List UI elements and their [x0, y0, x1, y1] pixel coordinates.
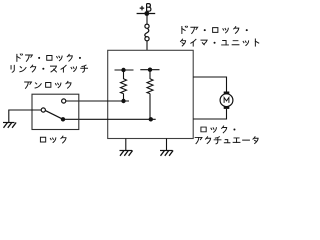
wire +B rail to fuse [146, 14, 148, 25]
label door lock timer unit (2 lines katakana) [181, 26, 259, 46]
wire unlock contact to R1 bottom [66, 100, 129, 102]
junction dot R2 top [148, 68, 152, 72]
wire fuse to timer unit [146, 41, 148, 50]
ground (under timer unit, right) [160, 151, 173, 156]
junction dot R2 bottom [149, 117, 153, 121]
motor M1 [220, 94, 233, 107]
wire motor to timer unit (bottom) [193, 109, 226, 119]
wire timer unit to ground (left stem) [125, 139, 127, 151]
battery feed +B rail [137, 13, 156, 15]
label lock (rokku) [40, 136, 66, 143]
label lock actuator (2 lines katakana) [195, 126, 258, 144]
label +B [140, 4, 151, 12]
switch lock contact (filled dot) [61, 117, 65, 121]
resistor R1 (unlock coil) [115, 70, 134, 101]
label unlock (anrokku) [25, 81, 71, 88]
motor M1 terminal (bottom) [224, 106, 230, 109]
ground (left) [3, 123, 16, 128]
door lock link switch box SW1 [32, 94, 79, 129]
label door lock link switch (2 lines katakana) [11, 54, 88, 73]
wire pole to left ground [9, 110, 41, 122]
fuse F1 [145, 24, 149, 41]
motor M1 terminal (top) [224, 92, 230, 95]
wire lock contact to R2 bottom [63, 118, 156, 120]
wire timer unit to motor (top) [193, 77, 226, 92]
junction dot R1 top [121, 68, 125, 72]
junction dot on +B rail [144, 11, 149, 16]
motor M letter [224, 98, 229, 103]
junction dot R1 bottom [121, 99, 125, 103]
resistor R2 (lock coil) [140, 70, 159, 120]
door lock timer unit box U1 [108, 50, 194, 138]
wire timer unit to ground (right stem) [166, 139, 168, 151]
switch unlock contact (open circle) [62, 99, 66, 103]
ground (under timer unit, left) [120, 151, 133, 156]
switch blade (pole to lock contact) [45, 111, 63, 120]
switch pole contact (open circle) [41, 108, 45, 112]
